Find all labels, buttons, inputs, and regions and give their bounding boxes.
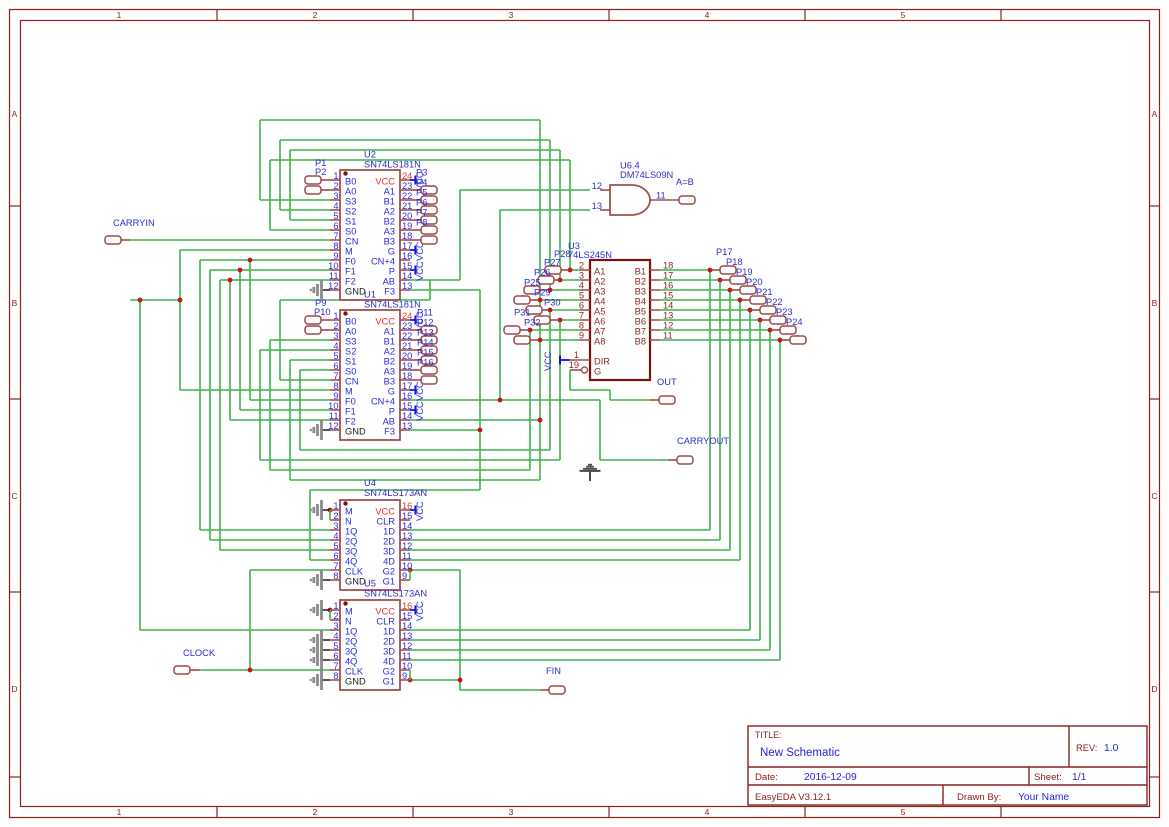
- svg-text:P26: P26: [534, 268, 551, 278]
- svg-text:13: 13: [592, 201, 602, 211]
- svg-text:B7: B7: [635, 327, 646, 337]
- svg-text:VCC: VCC: [415, 601, 425, 621]
- connector P13: [410, 328, 437, 355]
- svg-text:B1: B1: [635, 267, 646, 277]
- wire: [230, 419, 330, 421]
- wire: [550, 309, 580, 311]
- wire: [239, 270, 241, 410]
- svg-text:4: 4: [333, 531, 338, 541]
- svg-text:Your Name: Your Name: [1018, 792, 1069, 803]
- svg-text:4: 4: [333, 631, 338, 641]
- wire: [280, 209, 330, 211]
- svg-text:B2: B2: [384, 217, 395, 227]
- junction: [718, 278, 723, 283]
- wire: [719, 280, 721, 540]
- wire: [310, 559, 330, 561]
- svg-text:B8: B8: [635, 337, 646, 347]
- svg-text:4: 4: [333, 341, 338, 351]
- svg-text:14: 14: [402, 521, 412, 531]
- connector P28 label: [554, 249, 571, 259]
- svg-text:SN74LS173AN: SN74LS173AN: [364, 488, 427, 498]
- wire: [749, 310, 751, 630]
- connector P6: [410, 198, 437, 225]
- wire: [610, 399, 650, 401]
- wire: [200, 259, 330, 261]
- junction: [758, 318, 763, 323]
- wire: [410, 529, 710, 531]
- wire: [660, 309, 750, 311]
- connector P20: [740, 277, 766, 304]
- wire: [459, 570, 461, 690]
- svg-text:16: 16: [663, 281, 673, 291]
- ground (earth) symbol below U3: [580, 465, 601, 481]
- svg-text:REV:: REV:: [1076, 743, 1097, 753]
- svg-text:6: 6: [579, 301, 584, 311]
- svg-text:CN: CN: [345, 237, 358, 247]
- connector near U3 A5: [526, 298, 561, 315]
- ground at U5 4Q pin: [311, 650, 330, 670]
- svg-text:18: 18: [663, 261, 673, 271]
- svg-text:GND: GND: [345, 427, 366, 437]
- wire: [410, 629, 750, 631]
- svg-text:14: 14: [402, 621, 412, 631]
- wire: [259, 120, 261, 200]
- svg-text:GND: GND: [345, 287, 366, 297]
- svg-text:A=B: A=B: [676, 177, 694, 187]
- svg-text:9: 9: [402, 671, 407, 681]
- svg-text:F2: F2: [345, 417, 356, 427]
- junction: [238, 268, 243, 273]
- svg-text:F3: F3: [384, 287, 395, 297]
- svg-text:U4: U4: [364, 478, 376, 488]
- wire: [560, 279, 580, 281]
- svg-text:CLOCK: CLOCK: [183, 648, 216, 658]
- svg-text:15: 15: [402, 511, 412, 521]
- op-amp U6.4 DM74LS09N AND gate: [592, 161, 679, 216]
- connector near U3 A2: [534, 268, 560, 285]
- op-amp U2 SN74LS181N ALU high nibble: [328, 150, 425, 301]
- wire: [769, 330, 771, 650]
- svg-text:B1: B1: [384, 337, 395, 347]
- svg-text:CLR: CLR: [376, 517, 395, 527]
- ground at U5 3Q pin: [311, 640, 330, 660]
- wire: [499, 210, 501, 400]
- port CLOCK: [174, 648, 216, 674]
- svg-text:S1: S1: [345, 217, 356, 227]
- junction: [498, 398, 503, 403]
- svg-text:B2: B2: [384, 357, 395, 367]
- wire: [249, 260, 251, 400]
- wire: [660, 279, 720, 281]
- svg-text:VCC: VCC: [375, 507, 395, 517]
- wire: [209, 270, 211, 540]
- svg-text:New Schematic: New Schematic: [760, 747, 840, 759]
- wire G2-G1 tie U5: [409, 670, 411, 680]
- svg-text:SN74LS173AN: SN74LS173AN: [364, 589, 427, 599]
- svg-text:VCC: VCC: [543, 351, 553, 371]
- wire: [570, 269, 580, 271]
- wire: [259, 350, 261, 460]
- wire: [709, 270, 711, 530]
- svg-text:1: 1: [574, 350, 579, 360]
- svg-text:CLK: CLK: [345, 567, 364, 577]
- svg-text:VCC: VCC: [375, 177, 395, 187]
- connector near U3 A3: [524, 278, 550, 295]
- svg-text:M: M: [345, 247, 353, 257]
- connector P1: [305, 158, 330, 184]
- wire: [540, 299, 580, 301]
- title block: [748, 726, 1147, 805]
- svg-text:3: 3: [579, 271, 584, 281]
- svg-text:A8: A8: [594, 337, 605, 347]
- wire: [130, 299, 180, 301]
- svg-text:P28: P28: [554, 249, 571, 259]
- svg-text:P24: P24: [786, 317, 803, 327]
- svg-text:G2: G2: [383, 567, 395, 577]
- junction: [248, 668, 253, 673]
- junction: [538, 338, 543, 343]
- svg-text:2: 2: [313, 10, 318, 20]
- wire: [569, 160, 571, 270]
- svg-text:4D: 4D: [383, 657, 395, 667]
- svg-text:7: 7: [579, 311, 584, 321]
- svg-text:7: 7: [333, 561, 338, 571]
- svg-text:B1: B1: [384, 197, 395, 207]
- svg-text:SN74LS181N: SN74LS181N: [364, 300, 421, 310]
- svg-text:GND: GND: [345, 577, 366, 587]
- wire M-N tie U4: [329, 510, 331, 520]
- svg-text:2Q: 2Q: [345, 537, 357, 547]
- svg-text:B: B: [1152, 298, 1158, 308]
- svg-text:14: 14: [663, 301, 673, 311]
- svg-text:8: 8: [333, 571, 338, 581]
- svg-text:4D: 4D: [383, 557, 395, 567]
- svg-text:VCC: VCC: [375, 317, 395, 327]
- svg-text:5: 5: [901, 10, 906, 20]
- wire: [180, 389, 330, 391]
- wire: [290, 219, 330, 221]
- svg-text:14: 14: [402, 271, 412, 281]
- connector P23: [770, 307, 796, 334]
- svg-text:VCC: VCC: [415, 261, 425, 281]
- svg-text:VCC: VCC: [415, 501, 425, 521]
- connector P11: [410, 308, 437, 335]
- port A=B: [676, 177, 695, 204]
- wire: [660, 299, 740, 301]
- wire: [310, 489, 480, 491]
- wire: [459, 190, 461, 280]
- junction: [748, 308, 753, 313]
- svg-text:7: 7: [333, 371, 338, 381]
- port CARRYOUT: [668, 436, 729, 464]
- op-amp U1 SN74LS181N ALU low nibble: [328, 290, 425, 441]
- wire: [269, 340, 271, 470]
- connector P8: [410, 218, 437, 245]
- svg-text:5: 5: [579, 291, 584, 301]
- svg-text:3: 3: [333, 621, 338, 631]
- svg-text:P21: P21: [756, 287, 773, 297]
- svg-text:14: 14: [402, 411, 412, 421]
- svg-text:P11: P11: [417, 308, 433, 318]
- svg-text:1Q: 1Q: [345, 527, 357, 537]
- wire M-N tie U5: [329, 610, 331, 620]
- wire G2-G1 tie U4: [409, 570, 411, 580]
- svg-text:11: 11: [663, 331, 673, 341]
- wire: [559, 150, 561, 280]
- svg-text:B3: B3: [384, 377, 395, 387]
- junction: [478, 428, 483, 433]
- wire: [270, 159, 570, 161]
- svg-text:3D: 3D: [383, 647, 395, 657]
- svg-text:SN74LS181N: SN74LS181N: [364, 160, 421, 170]
- wire: [260, 119, 540, 121]
- svg-text:3D: 3D: [383, 547, 395, 557]
- connector P17: [710, 247, 736, 274]
- connector near U3 A7: [504, 318, 541, 335]
- wire: [779, 340, 781, 660]
- connector P18: [720, 257, 746, 284]
- connector P15: [410, 348, 437, 375]
- svg-text:A6: A6: [594, 317, 605, 327]
- wire: [429, 280, 431, 300]
- wire: [759, 320, 761, 640]
- svg-text:2: 2: [313, 807, 318, 817]
- svg-text:6: 6: [333, 361, 338, 371]
- wire: [559, 320, 561, 460]
- svg-text:F0: F0: [345, 257, 356, 267]
- svg-text:P32: P32: [524, 318, 541, 328]
- op-amp U3 74LS245N bus transceiver: [543, 241, 673, 380]
- wire: [290, 149, 560, 151]
- junction: [408, 678, 413, 683]
- wire: [599, 400, 601, 460]
- wire: [460, 189, 590, 191]
- svg-text:4: 4: [333, 201, 338, 211]
- svg-text:P7: P7: [416, 208, 427, 218]
- wire: [560, 319, 580, 321]
- junction: [538, 418, 543, 423]
- svg-text:P8: P8: [416, 218, 427, 228]
- svg-text:P18: P18: [726, 257, 743, 267]
- svg-text:A0: A0: [345, 187, 356, 197]
- connector P12: [410, 318, 437, 345]
- svg-text:8: 8: [579, 321, 584, 331]
- ground at U5 2Q pin: [311, 630, 330, 650]
- junction: [548, 288, 553, 293]
- ground at U4 M pin: [311, 500, 330, 520]
- wire: [299, 370, 301, 450]
- svg-text:A4: A4: [594, 297, 605, 307]
- svg-text:P23: P23: [776, 307, 793, 317]
- svg-text:A0: A0: [345, 327, 356, 337]
- op-amp U5 SN74LS173AN register: [330, 579, 427, 691]
- svg-text:7: 7: [333, 661, 338, 671]
- svg-text:P2: P2: [315, 167, 326, 177]
- svg-text:12: 12: [663, 321, 673, 331]
- svg-text:B6: B6: [635, 317, 646, 327]
- wire: [250, 569, 330, 571]
- wire: [210, 269, 330, 271]
- svg-text:6: 6: [333, 651, 338, 661]
- wire: [410, 429, 480, 431]
- wire: [140, 629, 330, 631]
- svg-text:5: 5: [333, 641, 338, 651]
- svg-text:6: 6: [333, 221, 338, 231]
- svg-text:EasyEDA V3.12.1: EasyEDA V3.12.1: [755, 792, 831, 803]
- svg-text:1/1: 1/1: [1072, 772, 1087, 783]
- svg-text:S3: S3: [345, 337, 356, 347]
- svg-text:F1: F1: [345, 407, 356, 417]
- wire: [180, 249, 330, 251]
- svg-text:7: 7: [333, 231, 338, 241]
- wire: [410, 289, 480, 291]
- svg-text:4: 4: [579, 281, 584, 291]
- junction: [528, 328, 533, 333]
- svg-text:F0: F0: [345, 397, 356, 407]
- svg-text:16: 16: [402, 391, 412, 401]
- svg-text:1: 1: [333, 311, 338, 321]
- connector P22: [760, 297, 786, 324]
- svg-text:2: 2: [333, 511, 338, 521]
- svg-text:17: 17: [663, 271, 673, 281]
- svg-text:CN+4: CN+4: [371, 257, 395, 267]
- svg-text:CN: CN: [345, 377, 358, 387]
- svg-text:11: 11: [656, 191, 666, 201]
- wire: [280, 139, 550, 141]
- port OUT: [650, 377, 677, 404]
- svg-text:A3: A3: [384, 367, 395, 377]
- svg-text:G: G: [388, 247, 395, 257]
- svg-text:P6: P6: [416, 198, 427, 208]
- svg-text:VCC: VCC: [415, 401, 425, 421]
- wire: [279, 300, 281, 380]
- svg-text:5: 5: [333, 211, 338, 221]
- wire: [460, 689, 540, 691]
- svg-text:B2: B2: [635, 277, 646, 287]
- svg-text:11: 11: [329, 411, 339, 421]
- wire: [220, 279, 330, 281]
- svg-text:A1: A1: [594, 267, 605, 277]
- wire: [529, 330, 531, 470]
- svg-text:8: 8: [333, 671, 338, 681]
- junction: [328, 608, 333, 613]
- svg-text:1: 1: [333, 601, 338, 611]
- svg-text:A3: A3: [384, 227, 395, 237]
- svg-text:CARRYOUT: CARRYOUT: [677, 436, 729, 446]
- svg-text:G: G: [594, 367, 601, 377]
- svg-text:P17: P17: [716, 247, 733, 257]
- svg-text:3: 3: [333, 521, 338, 531]
- svg-text:Sheet:: Sheet:: [1034, 772, 1062, 783]
- svg-text:B0: B0: [345, 317, 356, 327]
- svg-text:DM74LS09N: DM74LS09N: [620, 170, 673, 180]
- wire: [300, 369, 330, 371]
- svg-text:P29: P29: [534, 288, 551, 298]
- wire: [410, 549, 730, 551]
- wire: [309, 490, 311, 560]
- wire: [479, 290, 481, 490]
- wire: [270, 339, 330, 341]
- wire: [549, 140, 551, 290]
- connector P19: [730, 267, 756, 294]
- wire: [660, 269, 710, 271]
- svg-text:P: P: [389, 267, 395, 277]
- connector P3: [410, 168, 437, 195]
- svg-text:13: 13: [402, 421, 412, 431]
- wire: [240, 409, 330, 411]
- svg-text:5: 5: [333, 351, 338, 361]
- wire: [410, 639, 760, 641]
- svg-text:13: 13: [402, 281, 412, 291]
- svg-text:A: A: [12, 109, 18, 119]
- svg-text:D: D: [1151, 684, 1157, 694]
- svg-text:S0: S0: [345, 227, 356, 237]
- svg-text:P30: P30: [544, 298, 561, 308]
- svg-text:CLK: CLK: [345, 667, 364, 677]
- wire: [210, 539, 330, 541]
- wire: [290, 479, 540, 481]
- svg-text:B: B: [12, 298, 18, 308]
- wire: [260, 199, 330, 201]
- svg-text:6: 6: [333, 551, 338, 561]
- svg-text:N: N: [345, 617, 352, 627]
- wire: [220, 549, 330, 551]
- svg-text:A1: A1: [384, 327, 395, 337]
- wire: [260, 459, 560, 461]
- wire: [410, 679, 460, 681]
- svg-text:P15: P15: [417, 348, 434, 358]
- svg-text:3Q: 3Q: [345, 647, 357, 657]
- svg-text:S2: S2: [345, 207, 356, 217]
- svg-text:74LS245N: 74LS245N: [568, 250, 612, 260]
- svg-text:12: 12: [402, 541, 412, 551]
- svg-text:M: M: [345, 607, 353, 617]
- ground at U2 GND pin: [311, 280, 330, 300]
- svg-text:1: 1: [333, 501, 338, 511]
- svg-text:GND: GND: [345, 677, 366, 687]
- svg-text:12: 12: [592, 181, 602, 191]
- wire: [199, 260, 201, 530]
- svg-text:2: 2: [333, 181, 338, 191]
- svg-text:U2: U2: [364, 150, 376, 160]
- wire: [410, 279, 460, 281]
- wire: [570, 389, 610, 391]
- wire: [500, 209, 590, 211]
- wire: [660, 329, 770, 331]
- svg-text:3: 3: [333, 191, 338, 201]
- connector P24: [780, 317, 806, 344]
- svg-text:10: 10: [402, 561, 412, 571]
- svg-text:P19: P19: [736, 267, 753, 277]
- svg-text:P22: P22: [766, 297, 783, 307]
- wire: [540, 339, 580, 341]
- svg-text:P25: P25: [524, 278, 541, 288]
- svg-text:8: 8: [333, 241, 338, 251]
- wire: [549, 310, 551, 450]
- svg-text:A2: A2: [384, 347, 395, 357]
- svg-text:1: 1: [117, 807, 122, 817]
- svg-text:5: 5: [901, 807, 906, 817]
- connector near U3 A1: [544, 258, 570, 275]
- connector P2: [305, 167, 330, 194]
- svg-text:B0: B0: [345, 177, 356, 187]
- wire: [410, 659, 780, 661]
- wire: [179, 250, 181, 390]
- svg-text:B3: B3: [635, 287, 646, 297]
- svg-text:2: 2: [333, 611, 338, 621]
- svg-text:4: 4: [705, 10, 710, 20]
- svg-text:P12: P12: [417, 318, 434, 328]
